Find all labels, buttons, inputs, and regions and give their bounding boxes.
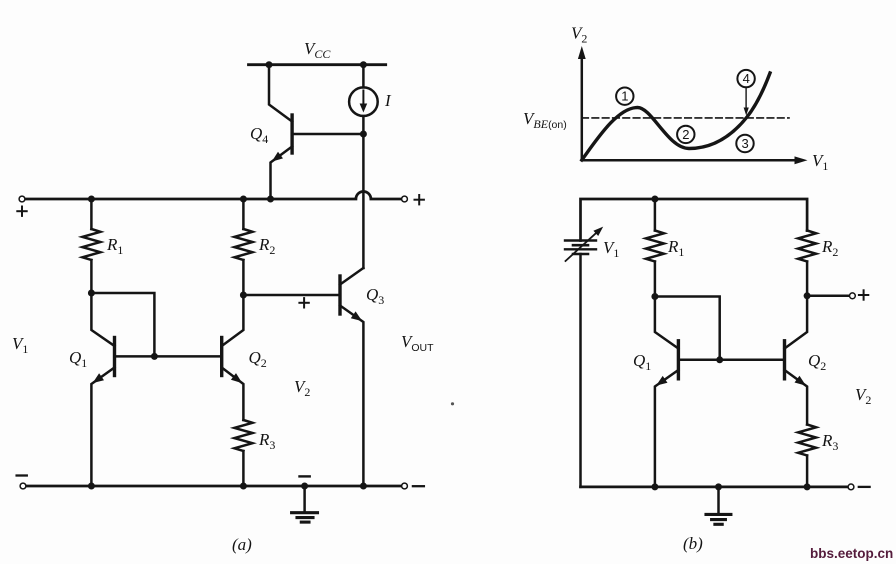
node: Q4 emitter junction on upper rail <box>267 196 274 203</box>
wire: upper rail (a) with hop over current-source line <box>26 192 400 199</box>
svg-text:Q3: Q3 <box>366 285 384 307</box>
graph: V2 axis (y) <box>578 46 586 160</box>
resistor R2 (a) <box>234 199 252 295</box>
svg-text:(a): (a) <box>232 535 252 554</box>
node: current source junction on VCC rail <box>360 61 367 68</box>
wire: bottom rail (b) <box>581 486 848 489</box>
circled number 2 <box>677 126 694 143</box>
label V2 (a) <box>294 377 310 399</box>
svg-text:(b): (b) <box>683 534 703 553</box>
circled number 3 <box>736 135 753 152</box>
node: feedback loop on base line (b) <box>716 356 723 363</box>
node: R1 bottom / Q1 collector junction <box>88 290 95 297</box>
node: ground junction (a) <box>301 483 308 490</box>
label R1 (a) <box>106 235 123 257</box>
label Q4 <box>250 124 268 146</box>
terminal: bottom-left (-) <box>20 483 26 489</box>
svg-text:V1: V1 <box>12 334 28 356</box>
label Q1 (a) <box>69 348 87 370</box>
svg-text:V2: V2 <box>571 24 587 46</box>
label V1 axis <box>812 151 828 173</box>
stray speck <box>451 402 454 405</box>
node: R3 bottom on bottom rail <box>240 483 247 490</box>
label VBE(on) <box>523 109 567 131</box>
svg-text:3: 3 <box>742 136 749 151</box>
wire: battery bottom to bottom rail (b) <box>579 254 582 487</box>
circled number 4 <box>737 70 754 87</box>
terminal: top-left input (+) <box>19 196 25 202</box>
wire: current source to Q4 base node and down to Q3 collector <box>362 116 365 268</box>
node: R1 top junction <box>88 196 95 203</box>
svg-text:R1: R1 <box>667 237 684 259</box>
svg-text:R2: R2 <box>821 237 838 259</box>
graph: V1 axis (x) <box>582 156 808 164</box>
label Q2 (a) <box>249 348 267 370</box>
resistor R3 (b) <box>798 425 816 487</box>
svg-text:VBE(on): VBE(on) <box>523 109 567 131</box>
svg-text:R1: R1 <box>106 235 123 257</box>
svg-text:bbs.eetop.cn: bbs.eetop.cn <box>810 546 893 561</box>
label Q3 <box>366 285 384 307</box>
label R3 (b) <box>821 431 838 453</box>
svg-text:R3: R3 <box>821 431 838 453</box>
arrow from circled 4 to curve <box>744 89 749 116</box>
label VOUT <box>401 332 434 354</box>
transistor Q2 (b) <box>785 296 808 425</box>
node: R1 top junction (b) <box>651 196 658 203</box>
node: R2 bottom / Q2 collector / output junction (b) <box>804 292 811 299</box>
dashed line VBE(on) level <box>582 117 789 119</box>
wire: Q1 collector-to-base feedback loop <box>91 293 154 356</box>
svg-text:R2: R2 <box>258 235 275 257</box>
terminal: bottom right - (b) <box>848 484 854 490</box>
resistor R1 (a) <box>82 199 100 293</box>
node: Q3 emitter on bottom rail <box>360 483 367 490</box>
svg-text:V2: V2 <box>855 385 871 407</box>
transistor Q1 (b) <box>655 297 679 487</box>
terminal: output + (b) <box>850 293 856 299</box>
transistor Q4 <box>269 65 363 199</box>
label - bottom right <box>413 485 424 487</box>
transistor Q1 (a) <box>91 293 114 486</box>
label + top-left <box>17 207 26 216</box>
label (b) <box>683 534 703 553</box>
ground (b) <box>706 487 731 524</box>
transistor Q3 <box>340 268 363 486</box>
label R2 (b) <box>821 237 838 259</box>
current source I <box>349 87 378 116</box>
node: Q1 emitter on bottom rail (b) <box>651 483 658 490</box>
power VCC label <box>304 39 331 61</box>
wire: Q1 collector-to-base feedback loop (b) <box>655 297 720 360</box>
label R2 (a) <box>258 235 275 257</box>
svg-text:V2: V2 <box>294 377 310 399</box>
label R3 (a) <box>258 430 275 452</box>
label Q1 (b) <box>633 351 651 373</box>
node: Q4 base junction <box>360 131 367 138</box>
label Q2 (b) <box>808 351 826 373</box>
svg-text:Q2: Q2 <box>249 348 267 370</box>
svg-text:I: I <box>384 91 392 110</box>
wire: VCC to current source <box>362 65 365 88</box>
wire: VCC supply rail (a) <box>249 63 386 66</box>
svg-text:Q4: Q4 <box>250 124 268 146</box>
transistor Q2 (a) <box>222 295 244 420</box>
node: R2 bottom / Q2 collector / Q3 base junction <box>240 292 247 299</box>
watermark bbs.eetop.cn <box>810 546 893 561</box>
wire: Q1-Q2 base line (a) <box>115 355 222 358</box>
node: Q1 emitter on bottom rail <box>88 483 95 490</box>
label V2 (b) <box>855 385 871 407</box>
label R1 (b) <box>667 237 684 259</box>
svg-text:4: 4 <box>743 71 750 86</box>
node: feedback loop on base line <box>151 353 158 360</box>
node: R1 bottom / Q1 collector junction (b) <box>651 293 658 300</box>
circled number 1 <box>616 88 633 105</box>
svg-text:2: 2 <box>682 127 689 142</box>
svg-text:V1: V1 <box>812 151 828 173</box>
node: R3 bottom on bottom rail (b) <box>804 483 811 490</box>
resistor R3 (a) <box>234 420 252 486</box>
svg-text:VOUT: VOUT <box>401 332 434 354</box>
svg-text:Q1: Q1 <box>633 351 651 373</box>
resistor R1 (b) <box>646 199 664 297</box>
terminal: bottom rail right (-) <box>402 483 408 489</box>
label V2 axis <box>571 24 587 46</box>
node: R2 top junction <box>240 196 247 203</box>
label V1 (a) <box>12 334 28 356</box>
label + output (b) <box>859 290 868 299</box>
label - bottom right (b) <box>859 486 870 488</box>
wire: Q3 base from R2 node <box>243 294 340 297</box>
label V1 (b source) <box>603 238 619 260</box>
svg-text:VCC: VCC <box>304 39 331 61</box>
svg-text:1: 1 <box>621 89 628 104</box>
svg-text:V1: V1 <box>603 238 619 260</box>
resistor R2 (b) <box>798 231 816 296</box>
wire: top rail (b) <box>581 199 808 241</box>
svg-text:R3: R3 <box>258 430 275 452</box>
wire: output lead (b) <box>807 295 848 298</box>
wire: Q1-Q2 base line (b) <box>678 359 784 362</box>
svg-text:Q1: Q1 <box>69 348 87 370</box>
label - above ground (V2 minus) <box>300 475 310 477</box>
label + at Q3 base (V2 plus) <box>299 298 308 307</box>
label - bottom-left <box>17 474 27 476</box>
node: ground junction (b) <box>715 483 722 490</box>
node: Q4 collector junction on VCC rail <box>266 61 273 68</box>
label I <box>384 91 392 110</box>
battery source V1 (variable) <box>565 227 603 261</box>
terminal: upper rail right (+) <box>402 196 408 202</box>
label + upper right <box>415 195 424 204</box>
wire: bottom rail (a) <box>27 485 400 488</box>
ground (a) <box>292 486 318 522</box>
curve: V2 vs V1 transfer characteristic <box>582 73 770 160</box>
label (a) <box>232 535 252 554</box>
svg-text:Q2: Q2 <box>808 351 826 373</box>
